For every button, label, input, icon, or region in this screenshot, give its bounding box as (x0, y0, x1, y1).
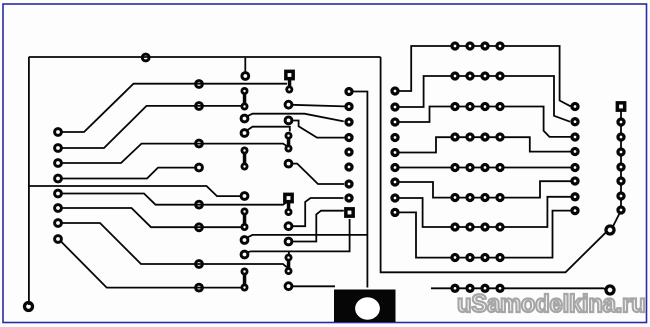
IC U2 right pad column (390, 86, 399, 217)
wire: net 1 row (61, 84, 287, 132)
wire: branch bus y=186 to pad (29, 186, 241, 196)
wire: net 3 row (61, 144, 287, 163)
wire: col2 pad226 to right block (292, 198, 344, 226)
wire: bus y=235 (246, 235, 367, 238)
column 2 single pads (285, 101, 292, 289)
wire: col2 pad120 to right block (292, 121, 345, 138)
display connector pad column (570, 102, 579, 215)
jumper link pair 4 (241, 268, 249, 292)
big pad bottom left (25, 303, 33, 311)
wire: line y=251 to square (251, 219, 350, 251)
jumper link pair 1 (241, 87, 249, 111)
motor footprint black body (334, 290, 396, 323)
wire: row 7 net (399, 197, 571, 227)
watermark text (457, 290, 646, 319)
wire: net 7 row (61, 223, 287, 267)
wire: pad joins y=251 line (246, 251, 250, 253)
wire: row 1 net (399, 46, 571, 106)
wire: net 8 row (60, 241, 241, 288)
square pad with link bottom (283, 193, 294, 216)
wire: row 6 net (399, 181, 571, 197)
jumper link pair 3 (241, 208, 249, 232)
wire: net 5 row (61, 194, 288, 205)
resistor array rows of pads (450, 41, 504, 293)
wire: right edge chain (613, 108, 621, 227)
wire: col2 pad241 to square (292, 211, 344, 242)
wire: long vertical to motor (353, 92, 367, 288)
wire: col2 pad163 to right block (292, 164, 344, 184)
big pad right lower (606, 286, 614, 294)
wire: drop from top bus to pad (244, 58, 246, 73)
connector J1 pads left column (55, 129, 62, 243)
wire: top horizontal bus (29, 56, 381, 58)
wire: row 3 net (399, 107, 571, 137)
right edge pad column (616, 117, 625, 214)
square pad right edge (616, 101, 627, 112)
wire: pad to dumbbell top link (246, 127, 290, 132)
via pad on top bus (142, 54, 149, 61)
wire: net 4 row (61, 168, 196, 179)
IC U2 left pad column (344, 87, 353, 203)
jumper link pair 6 (285, 254, 293, 276)
wire: row 5 net (399, 167, 571, 169)
IC column U1 single pads (241, 73, 249, 258)
wire: branch to dumbbell (288, 251, 290, 254)
connector J2 pads column (196, 81, 203, 291)
square pad pin 1 of U2 (344, 207, 355, 218)
jumper link pair 2 (241, 147, 249, 171)
big pad right upper (606, 226, 614, 234)
jumper link pair 5 (285, 132, 293, 153)
wire: ground loop via right side (381, 57, 607, 272)
wire: row 2 net (399, 76, 570, 122)
wire: net 6 row (61, 208, 242, 227)
wire: row 8 net (399, 211, 571, 258)
wire: col2 pad104 to right block (292, 105, 345, 107)
wire: row 4 net (399, 137, 571, 152)
wire: col2 pad286 to motor pad (292, 285, 335, 287)
wire: bus y=113.5 from pad to right block (246, 114, 344, 122)
wire: net 2 row (61, 106, 242, 148)
wire: row 9 net (431, 288, 607, 289)
square pad with link top (284, 70, 295, 94)
wire: left vertical bus (28, 57, 30, 305)
